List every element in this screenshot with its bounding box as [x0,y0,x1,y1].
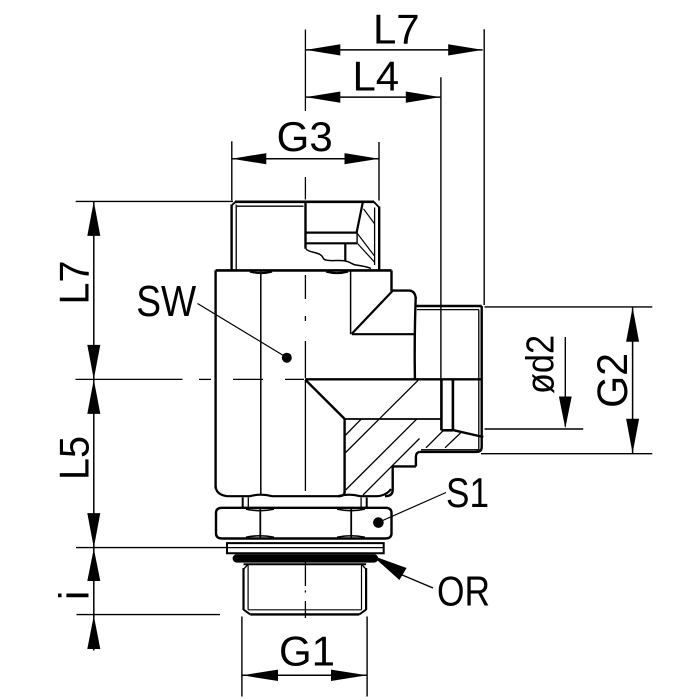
svg-text:S1: S1 [446,469,489,516]
side port G2 thread body [305,306,482,452]
leader SW [198,304,292,363]
dimension G2 right [481,307,652,454]
dimension L7 top [306,29,484,305]
svg-text:G3: G3 [277,113,333,160]
O-ring OR [233,554,379,562]
hex body SW outline [216,270,392,496]
washer [227,543,384,553]
svg-text:L7: L7 [51,261,98,305]
svg-text:i: i [51,591,98,600]
top port G3 internal thread cut-away [306,201,375,269]
side port G2 boss shoulder [352,291,416,379]
svg-text:L4: L4 [352,52,399,99]
horizontal side-port centerline [76,378,305,380]
section steps to nut [385,452,419,496]
spot-face hole d2 walls [441,379,483,437]
dimension G3 [232,141,379,200]
top port G3 cap outline [232,202,380,271]
dimension od2 arrow [485,337,584,429]
leader S1 [373,493,446,528]
svg-text:ød2: ød2 [520,335,563,394]
leader OR [372,556,433,589]
svg-text:L5: L5 [51,436,98,480]
internal bore cone and wall [305,380,441,497]
stud G1 thread [244,564,367,614]
left dimension column L7 L5 i [76,201,233,650]
svg-text:L7: L7 [373,5,420,52]
collar below hex body [243,497,367,507]
svg-text:SW: SW [136,277,196,326]
dimension L4 [306,77,441,379]
svg-text:G1: G1 [279,628,335,675]
svg-text:OR: OR [437,568,490,615]
dimension G1 bottom [242,617,367,697]
svg-text:G2: G2 [589,353,637,408]
vertical centerline [304,30,306,619]
locknut S1 [216,508,392,539]
section hatching [346,380,461,495]
